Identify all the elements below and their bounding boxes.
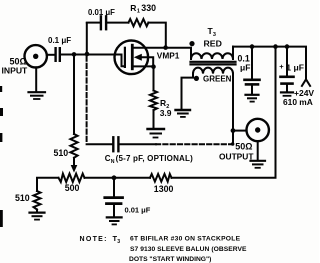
- svg-text:0.01 μF: 0.01 μF: [88, 8, 115, 17]
- wire CN to output dashed: [120, 143, 156, 145]
- svg-text:RED: RED: [204, 38, 222, 48]
- wire secondary right to output: [232, 74, 234, 131]
- node B junction dot: [85, 52, 90, 57]
- svg-text:GREEN: GREEN: [203, 74, 232, 83]
- resistor R1 330: [129, 19, 149, 26]
- wire bias feed from rail: [172, 47, 276, 178]
- wire cap to R1: [107, 22, 128, 24]
- svg-text:610 mA: 610 mA: [283, 97, 313, 107]
- svg-text:0.1 μF: 0.1 μF: [48, 36, 71, 45]
- ground 0.1uF bypass: [246, 94, 259, 96]
- primary winding: [190, 48, 192, 59]
- svg-text:3: 3: [213, 32, 216, 38]
- resistor R 500: [85, 177, 115, 179]
- svg-text:330: 330: [141, 3, 156, 13]
- ground 510: [30, 212, 45, 214]
- resistor R2 3.9: [150, 91, 157, 111]
- svg-text:OUTPUT: OUTPUT: [219, 152, 254, 162]
- arrow wiper: [73, 158, 75, 167]
- svg-text:N: N: [111, 159, 115, 165]
- svg-text:S7 9130 SLEEVE BALUN (OBSERVE: S7 9130 SLEEVE BALUN (OBSERVE: [130, 246, 247, 253]
- wire to output jack: [233, 130, 246, 132]
- resistor R 510 upper: [70, 134, 77, 158]
- wire 1300 to node C: [114, 177, 150, 179]
- node rail dot 1: [250, 44, 255, 49]
- node output junction dot: [231, 128, 236, 133]
- svg-text:0.01 μF: 0.01 μF: [125, 206, 151, 215]
- supply arrow +24V: [302, 79, 310, 86]
- node rail dot 2: [273, 44, 278, 49]
- svg-text:3: 3: [117, 239, 120, 245]
- wire 510 to ground: [36, 210, 38, 212]
- wire 500 left to 510: [37, 178, 59, 191]
- node A junction dot: [72, 52, 77, 57]
- svg-text:1300: 1300: [154, 184, 174, 194]
- connector J2 50-ohm output: [247, 119, 269, 141]
- connector J1 50-ohm input: [25, 45, 47, 67]
- svg-text:1: 1: [137, 9, 140, 15]
- wire secondary left to ground: [182, 74, 194, 109]
- svg-text:R: R: [130, 3, 136, 13]
- resistor R 510 left: [34, 191, 41, 210]
- winding dot GREEN (start): [194, 76, 199, 81]
- wire R1 to drain: [148, 23, 165, 48]
- svg-text:3.9: 3.9: [160, 108, 172, 118]
- svg-text:500: 500: [65, 183, 80, 193]
- capacitor CN neutralizing: [112, 137, 114, 151]
- resistor R 1300: [150, 174, 172, 182]
- svg-text:50Ω: 50Ω: [235, 142, 252, 152]
- node C junction dot: [112, 175, 117, 180]
- svg-text:(5-7 pF, OPTIONAL): (5-7 pF, OPTIONAL): [116, 154, 194, 163]
- svg-text:6T BIFILAR #30 ON STACKPOLE: 6T BIFILAR #30 ON STACKPOLE: [130, 236, 241, 243]
- wire source to R2: [153, 67, 155, 91]
- node rail dot 3: [285, 44, 290, 49]
- core: [191, 61, 236, 63]
- capacitor 0.01uF bias: [113, 178, 115, 196]
- ground output jack: [257, 141, 259, 160]
- ground T3 secondary: [176, 109, 191, 111]
- node source junction dot: [151, 64, 156, 69]
- secondary winding: [193, 68, 233, 74]
- svg-text:+: +: [279, 62, 284, 71]
- svg-text:510: 510: [15, 193, 30, 203]
- svg-text:NOTE:: NOTE:: [80, 236, 108, 243]
- wire drain to T3: [132, 47, 191, 49]
- svg-text:510: 510: [54, 148, 69, 158]
- ground input: [35, 67, 37, 91]
- wire C1 to gate: [61, 54, 114, 56]
- winding dot RED (start): [189, 41, 194, 46]
- wire neutralization dashed riser: [86, 57, 88, 145]
- svg-text:INPUT: INPUT: [2, 66, 29, 76]
- wire V+ rail: [233, 47, 306, 79]
- svg-text:VMP1: VMP1: [157, 50, 180, 60]
- scan smudges left edge: [0, 86, 2, 92]
- node drain junction dot: [163, 45, 168, 50]
- svg-text:μF: μF: [240, 63, 250, 73]
- wire input to C1: [47, 54, 54, 56]
- svg-text:DOTS "START WINDING"): DOTS "START WINDING"): [129, 256, 211, 263]
- ground R2: [148, 128, 165, 130]
- ground 0.01uF bias: [107, 216, 122, 218]
- capacitor 0.1uF bypass: [251, 47, 253, 79]
- capacitor 0.01uF feedback: [100, 16, 102, 29]
- capacitor 0.1uF input: [54, 48, 56, 61]
- ground 1uF: [281, 91, 293, 93]
- wiper arrow to 500: [73, 54, 75, 134]
- wire R2 to ground: [153, 110, 155, 127]
- capacitor C 1uF electrolytic: [286, 47, 288, 76]
- svg-text:R: R: [160, 98, 166, 108]
- transistor Q1 VMP1: [115, 41, 149, 75]
- wire feedback riser: [86, 23, 88, 53]
- svg-text:1 μF: 1 μF: [286, 63, 304, 73]
